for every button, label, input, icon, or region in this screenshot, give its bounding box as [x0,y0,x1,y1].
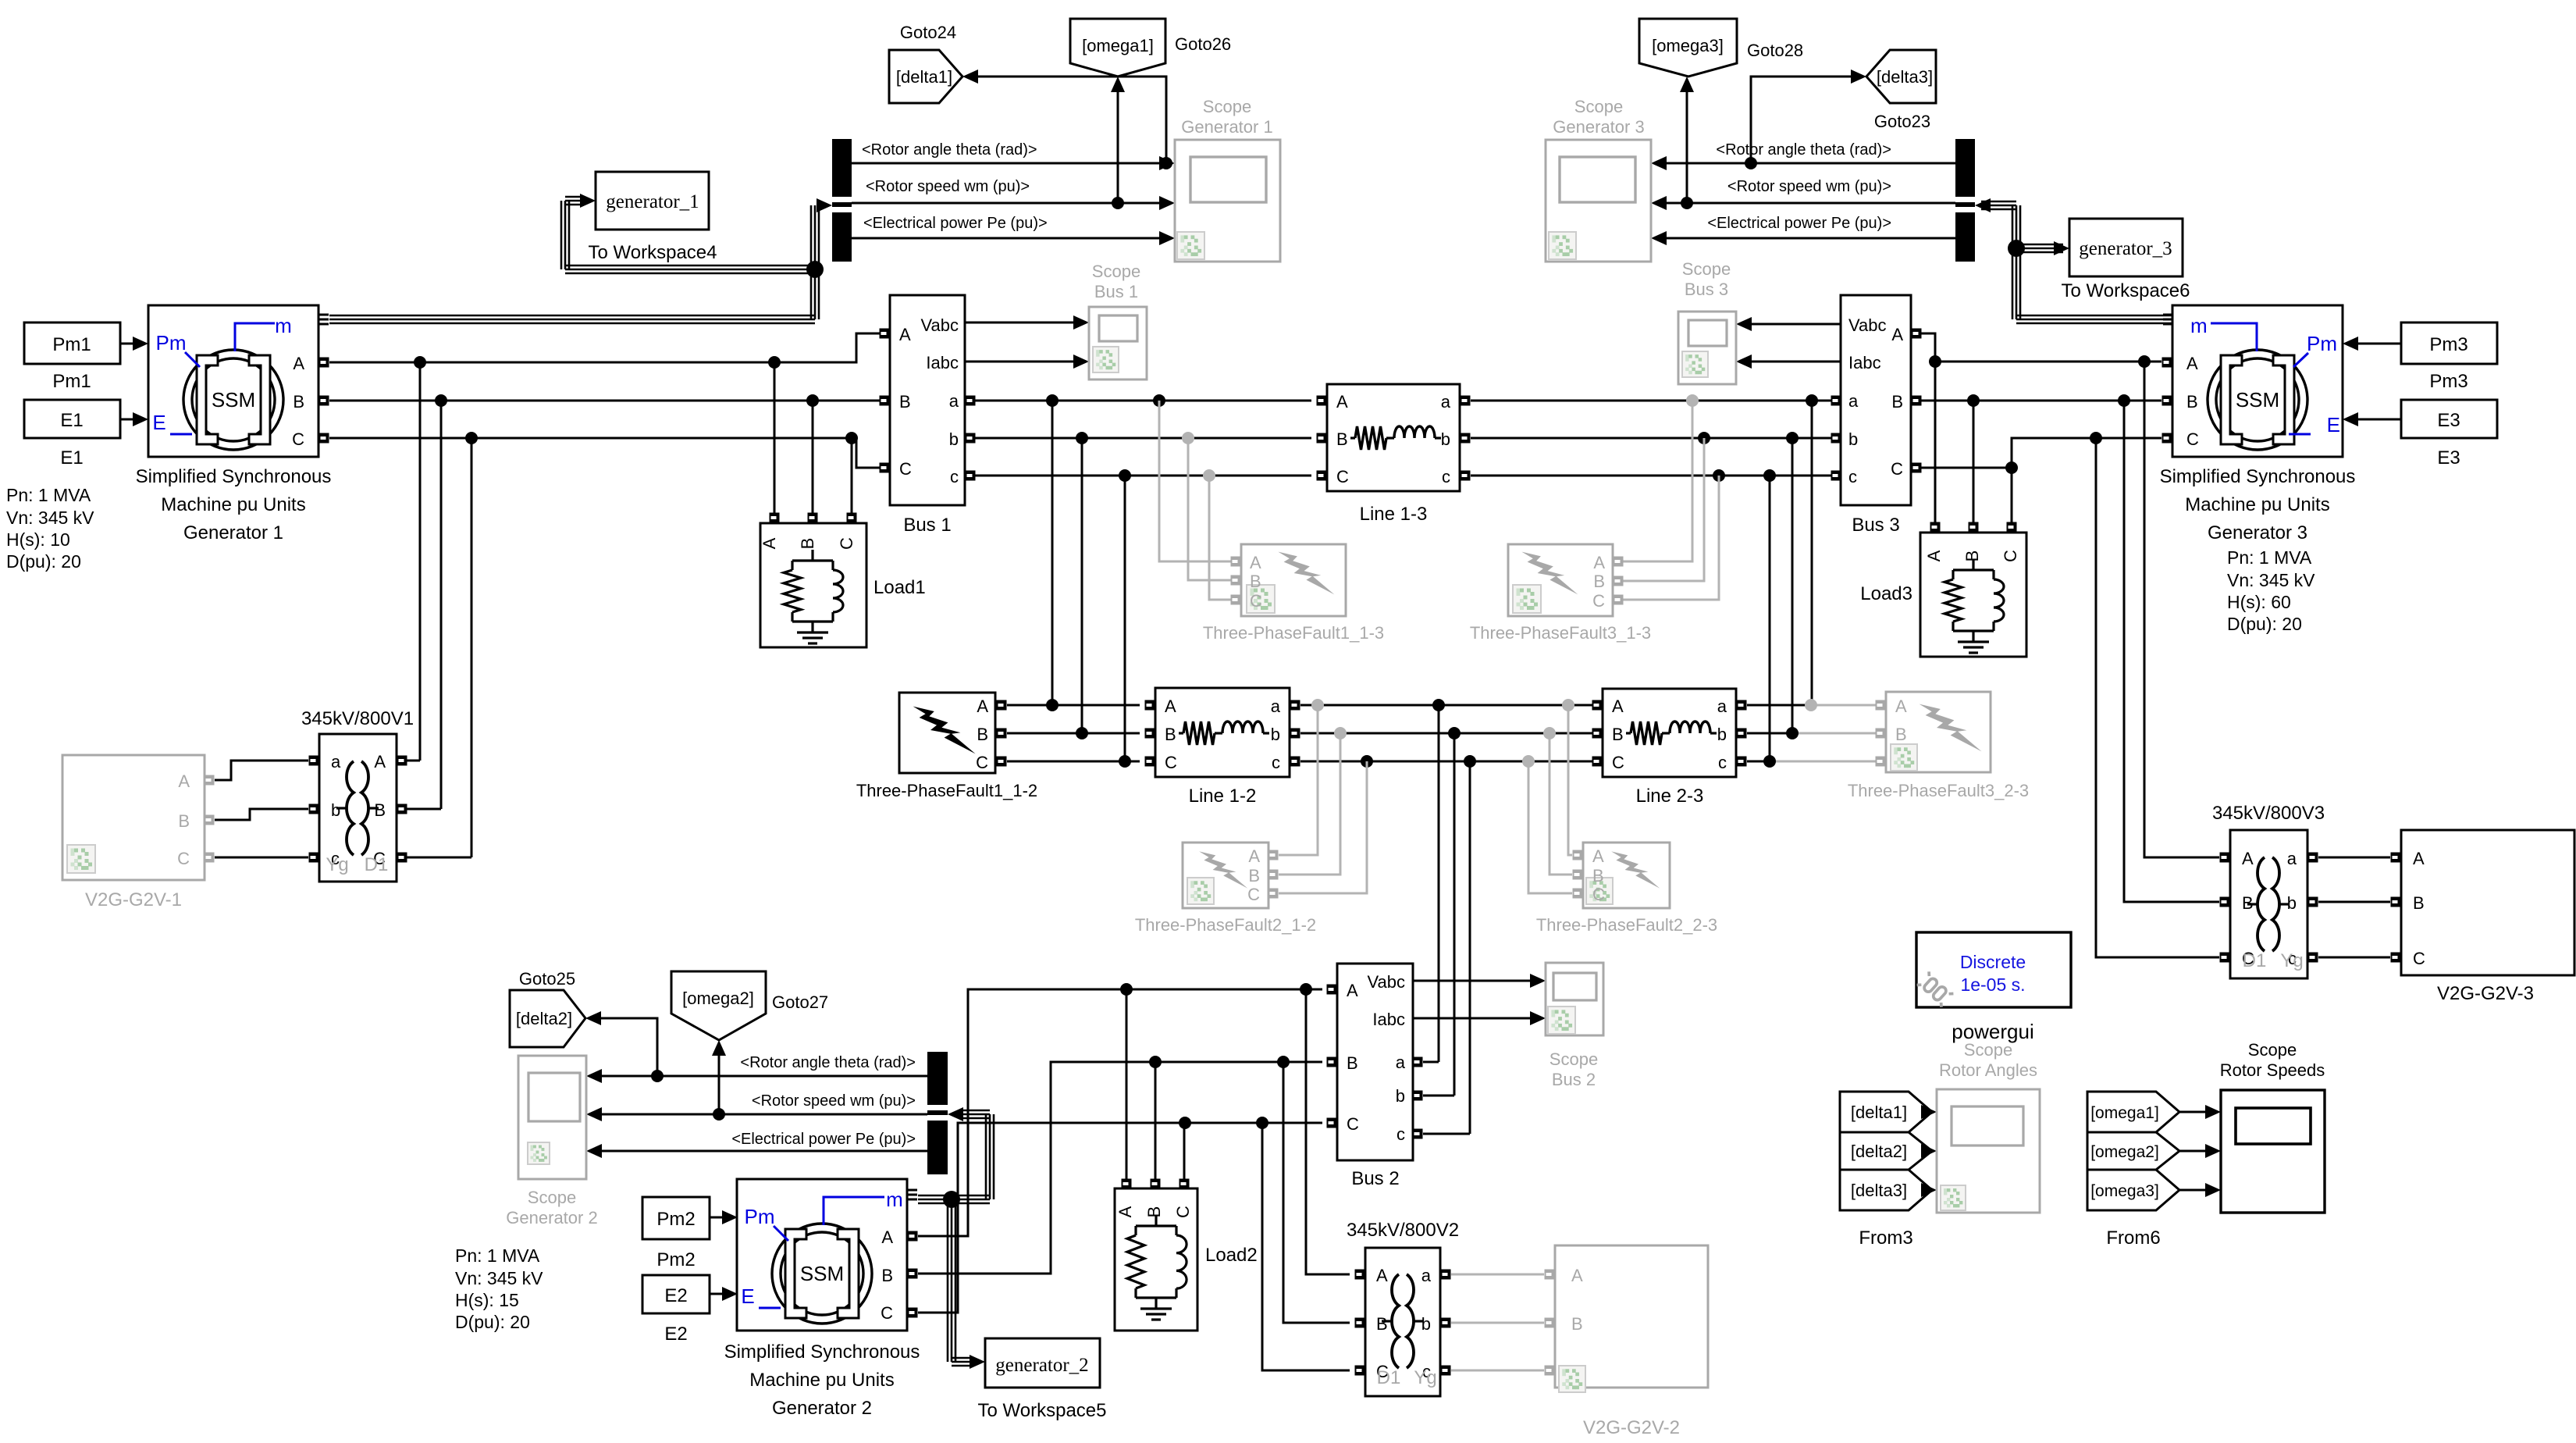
svg-text:Vabc: Vabc [1848,315,1887,335]
wire drop Bus3.b to Line 2-3.b [1786,432,1799,444]
port mark G2.m [908,1189,917,1192]
svg-text:Pm2: Pm2 [656,1249,695,1270]
wire Bus3 Iabc to Scope Bus 3 [1750,361,1841,363]
svg-text:E3: E3 [2437,447,2460,469]
wire mux3 out2 [1665,202,1955,205]
svg-text:<Electrical power Pe (pu)>: <Electrical power Pe (pu)> [731,1131,916,1148]
svg-text:Generator 2: Generator 2 [772,1398,872,1419]
wire to Goto28 omega3 [1681,197,1693,209]
svg-text:D1: D1 [2243,950,2267,971]
svg-text:Machine pu Units: Machine pu Units [161,494,305,515]
svg-text:<Rotor speed wm (pu)>: <Rotor speed wm (pu)> [866,178,1030,195]
wire mux1 out1 to Scope Generator 1 [852,162,1161,165]
svg-text:A: A [1347,981,1358,1000]
svg-text:Simplified Synchronous: Simplified Synchronous [724,1341,920,1363]
source block E1 [24,400,120,438]
svg-text:C: C [1891,459,1903,479]
scope Scope Bus 2 [1546,963,1603,1035]
svg-text:A: A [1115,1206,1135,1217]
svg-text:Pm3: Pm3 [2429,334,2467,355]
To Workspace4 block [596,172,709,230]
wire T3 C riser [2096,438,2219,957]
svg-text:E2: E2 [664,1324,687,1345]
source block Pm2 [642,1197,710,1239]
svg-text:Vabc: Vabc [1367,972,1405,992]
svg-text:Simplified Synchronous: Simplified Synchronous [136,466,332,487]
svg-text:B: B [1144,1206,1164,1218]
svg-text:Bus 3: Bus 3 [1685,280,1728,299]
svg-text:A: A [1376,1266,1388,1285]
wire T2 C feed [1262,1123,1350,1370]
svg-text:D(pu): 20: D(pu): 20 [6,551,81,572]
generator G3 [2172,305,2343,457]
svg-text:Three-PhaseFault1_1-2: Three-PhaseFault1_1-2 [856,781,1037,800]
wire drop Bus3.a to Line 2-3.a [1806,394,1818,407]
svg-text:E: E [741,1284,754,1308]
svg-text:[delta2]: [delta2] [516,1009,572,1028]
svg-text:a: a [949,391,959,411]
svg-text:A: A [178,771,190,791]
wire T2.b to V2G-2.B [1451,1322,1544,1324]
svg-text:B: B [1250,572,1261,591]
svg-text:[omega2]: [omega2] [682,989,754,1008]
wire Bus2 Iabc to Scope Bus 2 [1413,1017,1532,1020]
wire T3 B riser [2124,401,2219,902]
wire mux2 out3 [600,1150,927,1153]
svg-text:A: A [1592,846,1604,866]
wire Bus1.b to Line 1-3.B [975,437,1311,440]
wire Bus1 Vabc to Scope Bus 1 [965,322,1075,324]
svg-text:A: A [2186,354,2198,373]
svg-text:generator_3: generator_3 [2079,238,2172,259]
mux2 bus selector [927,1052,948,1174]
svg-text:Generator 3: Generator 3 [1553,117,1644,137]
svg-text:[delta1]: [delta1] [1851,1103,1907,1122]
wire G1.C to Bus1.C [329,438,880,468]
wire F1_1-2.C to Line 1-2.C [1007,761,1140,763]
wire mux3 out1 to Scope Generator 3 [1665,162,1955,165]
wire Line 1-3.a to Bus3.a [1471,400,1831,402]
wire mux1 out3 [852,237,1161,240]
wire Bus2.a riser [1432,699,1445,711]
svg-text:E1: E1 [60,410,83,431]
svg-text:B: B [1347,1053,1358,1073]
load block Load1 [774,362,776,513]
wire T3.a to V2G-3.A [2318,857,2390,859]
wire Bus1.c to Line 1-3.C [975,475,1311,477]
svg-text:Bus 2: Bus 2 [1351,1168,1399,1189]
svg-text:[omega3]: [omega3] [2090,1182,2159,1200]
To Workspace6 block [2069,219,2183,276]
goto block Goto28 [omega3] [1639,19,1737,77]
svg-text:m: m [886,1188,903,1211]
svg-text:Pm: Pm [156,331,187,355]
svg-text:E2: E2 [664,1285,687,1306]
svg-text:A: A [1336,392,1348,412]
svg-text:Generator 3: Generator 3 [2208,522,2307,543]
line block Line 1-2 [1155,688,1290,777]
svg-text:b: b [949,429,959,449]
wire mux2 out1 to Scope Generator 2 [600,1075,927,1078]
svg-text:B: B [178,811,190,831]
wire Line 2-3.a to fault F3_2-3.A [1747,704,1812,707]
svg-text:Iabc: Iabc [926,353,959,372]
svg-text:V2G-G2V-1: V2G-G2V-1 [85,889,182,910]
svg-text:Vabc: Vabc [920,315,959,335]
generator G1 Simplified Synchronous Machine [148,305,318,457]
wire Line 2-3.b to fault F3_2-3.B [1747,732,1792,735]
svg-text:Generator 1: Generator 1 [1181,117,1272,137]
svg-text:Bus 3: Bus 3 [1852,515,1899,536]
svg-text:Three-PhaseFault3_2-3: Three-PhaseFault3_2-3 [1848,781,2029,800]
svg-text:D1: D1 [1377,1367,1401,1388]
svg-text:Yg: Yg [326,854,348,875]
svg-text:Scope: Scope [1092,262,1140,281]
svg-text:B: B [1895,725,1907,744]
wire Line 1-2.a to Line 2-3.A [1300,704,1597,707]
from block From3 [delta1][delta2][delta3] [1840,1092,1932,1132]
wire transformer T1 A riser [419,362,422,761]
wire G1 m bus to mux1 and To Workspace4 [329,315,815,317]
source block E2 [642,1275,710,1313]
load block Load3 [1930,522,1941,533]
powergui block [1916,932,2071,1007]
wire V2G-1 A to T1 [215,761,308,780]
svg-text:C: C [881,1303,893,1323]
svg-text:C: C [1592,591,1605,611]
svg-text:<Rotor angle theta (rad)>: <Rotor angle theta (rad)> [862,141,1037,159]
line block Line 1-3 [1327,384,1460,491]
svg-text:Pn: 1 MVA: Pn: 1 MVA [2227,547,2312,568]
svg-text:A: A [2242,849,2254,868]
svg-text:A: A [977,697,988,716]
svg-text:A: A [2413,849,2425,868]
wire F1_1-2.B to Line 1-2.B [1007,732,1140,735]
svg-text:B: B [1165,725,1176,744]
wire Bus3.C to G3.C and Load3.C [1921,467,2012,469]
svg-text:Machine pu Units: Machine pu Units [749,1370,894,1391]
wire T2.c to V2G-2.C [1451,1370,1544,1372]
svg-text:Scope: Scope [1550,1049,1598,1069]
svg-text:Scope: Scope [528,1188,576,1207]
svg-text:From6: From6 [2106,1227,2160,1249]
wire G2 m bus loop to mux2 [918,1195,952,1197]
svg-text:Pm3: Pm3 [2429,371,2467,392]
svg-text:Simplified Synchronous: Simplified Synchronous [2160,466,2356,487]
wire V2G-1 C to T1 [215,857,308,859]
svg-text:A: A [1593,553,1605,572]
wire G2 m bus to To Workspace5 [947,1199,949,1362]
svg-text:A: A [374,752,386,771]
wire to Goto25 delta2 [651,1070,664,1082]
svg-text:c: c [1272,753,1280,772]
fault block Three-PhaseFault3_1-3 [1508,544,1613,616]
svg-text:c: c [1442,467,1450,486]
svg-text:Discrete: Discrete [1960,952,2026,972]
svg-text:Three-PhaseFault1_1-3: Three-PhaseFault1_1-3 [1203,623,1384,643]
svg-text:Line 2-3: Line 2-3 [1636,786,1704,807]
svg-text:Generator 1: Generator 1 [183,522,283,543]
svg-text:A: A [760,537,779,549]
source block E3 [2401,400,2497,438]
wire transformer T1 C riser [471,438,473,857]
svg-text:B: B [2186,392,2198,412]
svg-text:Line 1-2: Line 1-2 [1189,786,1257,807]
svg-text:B: B [293,392,304,412]
svg-text:m: m [2190,314,2208,337]
svg-text:b: b [1441,429,1450,449]
wire Line 1-2.b to Line 2-3.B [1300,732,1597,735]
svg-text:A: A [881,1227,893,1247]
svg-text:B: B [1376,1314,1388,1334]
svg-text:H(s): 10: H(s): 10 [6,529,70,550]
svg-text:C: C [2413,949,2425,968]
svg-text:Goto23: Goto23 [1874,112,1930,131]
svg-text:a: a [1396,1053,1406,1072]
port mark G1.m [319,314,329,316]
wire T3 A riser [2144,362,2219,857]
svg-text:B: B [2413,893,2425,913]
wire Pm3 to G3 [2357,343,2401,345]
bus block Bus 3 [1841,295,1911,505]
subsystem V2G-G2V-3 [2401,830,2574,975]
svg-text:B: B [1248,866,1260,885]
wire to Goto27 omega2 [713,1108,725,1121]
svg-text:Bus 1: Bus 1 [903,515,951,536]
svg-text:D1: D1 [365,854,389,875]
svg-text:c: c [1397,1124,1405,1144]
wire drop Bus3.c to Line 2-3.c [1763,469,1776,482]
svg-text:C: C [976,753,988,772]
svg-text:B: B [1593,572,1605,591]
svg-text:Goto24: Goto24 [900,23,956,42]
svg-text:E: E [2327,413,2340,436]
svg-text:Iabc: Iabc [1372,1010,1405,1029]
svg-text:C: C [1336,467,1349,486]
svg-text:a: a [1271,697,1281,716]
svg-text:A: A [1612,697,1624,716]
svg-text:b: b [1848,429,1858,449]
svg-text:<Rotor angle theta (rad)>: <Rotor angle theta (rad)> [1716,141,1891,159]
wire G1.A to Bus1.A [329,333,880,362]
wire Bus2.b riser [1448,727,1461,739]
svg-text:a: a [1441,392,1451,412]
svg-text:Generator 2: Generator 2 [506,1208,597,1227]
svg-text:C: C [1612,753,1624,772]
svg-text:B: B [1571,1314,1583,1334]
svg-text:Goto28: Goto28 [1747,41,1803,60]
svg-text:[delta2]: [delta2] [1851,1142,1907,1161]
svg-text:B: B [881,1266,893,1285]
svg-text:Three-PhaseFault2_1-2: Three-PhaseFault2_1-2 [1135,915,1316,935]
svg-text:b: b [331,800,340,820]
svg-text:Machine pu Units: Machine pu Units [2185,494,2329,515]
svg-text:[omega1]: [omega1] [1082,36,1154,55]
svg-text:m: m [275,314,292,337]
svg-text:C: C [2001,550,2020,562]
goto block Goto27 [omega2] [671,971,766,1040]
svg-text:Pm1: Pm1 [52,334,91,355]
svg-text:Vn: 345 kV: Vn: 345 kV [455,1268,543,1288]
svg-text:B: B [798,538,817,550]
svg-text:[omega3]: [omega3] [1652,36,1724,55]
wire Bus2.c riser [1464,755,1476,768]
goto block Goto23 [delta3] [1866,50,1936,103]
svg-text:B: B [1592,866,1604,885]
wire Line 2-3.c to fault F3_2-3.C [1747,761,1770,763]
from block From6 [omega1][omega2][omega3] [2087,1092,2179,1132]
svg-text:Load3: Load3 [1860,583,1912,604]
svg-text:Scope: Scope [2248,1040,2297,1060]
wire Bus3.B to G3.B and Load3.B [1921,400,2161,402]
svg-text:Pm: Pm [2307,332,2337,355]
wire T3.b to V2G-3.B [2318,901,2390,903]
load block Load2 [1126,989,1128,1179]
wire T2 A feed [1306,989,1350,1274]
svg-text:Yg: Yg [2280,950,2303,971]
wire mux1 out2 [852,202,1161,205]
svg-text:<Rotor angle theta (rad)>: <Rotor angle theta (rad)> [740,1054,916,1071]
svg-text:Vn: 345 kV: Vn: 345 kV [2227,570,2315,590]
svg-text:<Electrical power Pe (pu)>: <Electrical power Pe (pu)> [863,215,1048,232]
wire Bus1 Iabc to Scope Bus 1 [965,361,1075,363]
svg-text:Rotor Angles: Rotor Angles [1939,1060,2037,1080]
svg-text:345kV/800V2: 345kV/800V2 [1347,1220,1459,1241]
svg-text:B: B [1336,429,1348,449]
wire G2.A to Bus2.A [918,989,1322,1236]
wire drop to Line 1-2 phase A [1046,394,1059,407]
wire V2G-1 B to T1 [215,809,308,820]
node G1 phase junctions [414,356,426,369]
fault block Three-PhaseFault1_1-3 [1241,544,1346,616]
svg-text:H(s): 15: H(s): 15 [455,1290,519,1310]
wire fault F1_1-3 taps [1153,394,1165,407]
svg-text:Three-PhaseFault2_2-3: Three-PhaseFault2_2-3 [1536,915,1717,935]
svg-text:Line 1-3: Line 1-3 [1360,504,1428,525]
svg-text:C: C [2186,429,2199,449]
svg-text:C: C [1250,591,1262,611]
svg-text:Vn: 345 kV: Vn: 345 kV [6,508,94,528]
wire T3.c to V2G-3.C [2318,957,2390,959]
wire G2.C to Bus2.C [918,1123,1322,1313]
svg-text:c: c [1718,753,1727,772]
svg-text:b: b [1271,725,1280,744]
wire fault F3_1-3 taps [1686,394,1699,407]
fault block Three-PhaseFault2_1-2 [1183,843,1268,908]
svg-text:Scope: Scope [1574,97,1623,116]
wire Bus3.A to G3.A and Load3.A [1921,333,1935,362]
wire E2 to G2 [710,1293,724,1295]
svg-text:Goto27: Goto27 [772,992,828,1012]
svg-text:C: C [1347,1114,1359,1134]
svg-text:To Workspace6: To Workspace6 [2062,280,2190,301]
node Load2/T2 taps [1120,983,1133,996]
bus block Bus 1 [890,295,965,505]
To Workspace5 block [985,1338,1100,1388]
svg-text:345kV/800V1: 345kV/800V1 [301,708,414,729]
wire G3 m bus to mux3 and To Workspace6 [2016,315,2172,317]
svg-text:[omega1]: [omega1] [2090,1104,2159,1122]
svg-text:H(s): 60: H(s): 60 [2227,592,2291,612]
svg-text:c: c [1848,467,1857,486]
svg-text:Bus 2: Bus 2 [1552,1070,1596,1089]
wire F1_1-2.A to Line 1-2.A [1007,704,1140,707]
wire Line 1-3.b to Bus3.b [1471,437,1831,440]
svg-text:C: C [1247,885,1260,904]
wire transformer T1 B riser [440,401,443,809]
svg-text:a: a [1421,1266,1432,1285]
wire Line 1-2.c to Line 2-3.C [1300,761,1597,763]
svg-text:a: a [1848,391,1859,411]
svg-text:Pm: Pm [745,1205,775,1228]
subsystem V2G-G2V-1 [62,755,205,880]
svg-text:Bus 1: Bus 1 [1094,282,1138,301]
wire drop to Line 1-2 phase B [1076,432,1088,444]
wire T2 B feed [1283,1062,1350,1323]
svg-text:345kV/800V3: 345kV/800V3 [2212,803,2325,824]
svg-text:C: C [837,537,856,550]
svg-text:A: A [1571,1266,1583,1285]
svg-text:C: C [1165,753,1177,772]
svg-text:b: b [1396,1086,1405,1106]
svg-text:[delta3]: [delta3] [1851,1181,1907,1200]
svg-text:C: C [1592,885,1605,904]
svg-text:C: C [292,429,304,449]
svg-text:B: B [1891,392,1903,412]
svg-text:Scope: Scope [1203,97,1251,116]
svg-text:E3: E3 [2437,410,2460,431]
svg-text:a: a [1717,697,1727,716]
svg-text:b: b [1421,1314,1431,1334]
port mark G3.m [2163,314,2172,316]
svg-text:SSM: SSM [800,1262,844,1285]
wire mux2 out2 [600,1113,927,1116]
mux1 bus selector [832,139,852,262]
svg-text:Load2: Load2 [1205,1245,1258,1266]
svg-text:Scope: Scope [1964,1040,2012,1060]
source block Pm1 [24,322,120,364]
svg-text:Three-PhaseFault3_1-3: Three-PhaseFault3_1-3 [1470,623,1651,643]
wire to Goto23 delta3 [1745,157,1757,169]
svg-text:V2G-G2V-3: V2G-G2V-3 [2437,983,2534,1004]
wire G2.B to Bus2.B [918,1062,1322,1274]
svg-text:B: B [374,800,386,820]
svg-text:A: A [293,354,304,373]
svg-text:generator_1: generator_1 [606,191,699,212]
svg-text:Goto25: Goto25 [519,969,575,989]
svg-text:Yg: Yg [1414,1367,1436,1388]
wire drop to Line 1-2 phase C [1119,469,1131,482]
svg-text:SSM: SSM [2236,388,2279,412]
svg-text:From3: From3 [1859,1227,1912,1249]
subsystem V2G-G2V-2 [1555,1245,1708,1388]
svg-text:Load1: Load1 [873,577,926,598]
svg-text:Scope: Scope [1682,259,1731,279]
svg-text:A: A [1250,553,1261,572]
wire E1 to G1 [120,419,134,421]
mux3 bus selector [1955,139,1975,262]
svg-text:[delta1]: [delta1] [896,67,952,87]
svg-text:A: A [1891,325,1903,344]
svg-text:<Rotor speed wm (pu)>: <Rotor speed wm (pu)> [752,1092,916,1110]
svg-text:<Electrical power Pe (pu)>: <Electrical power Pe (pu)> [1707,215,1891,232]
bus block Bus 2 [1337,964,1413,1160]
wire Bus2 Vabc to Scope Bus 2 [1413,980,1532,982]
svg-text:B: B [1612,725,1624,744]
svg-text:B: B [977,725,988,744]
svg-text:A: A [899,325,911,344]
svg-text:a: a [2287,849,2297,868]
